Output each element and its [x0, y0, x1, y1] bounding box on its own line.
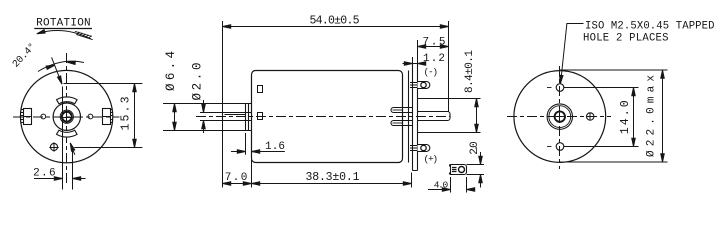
dimension 54.0 line [223, 26, 449, 28]
detail crimp bar [452, 168, 457, 172]
dimension 38.3 extension right [411, 173, 413, 188]
angular dimension arc 20.4deg [38, 61, 84, 71]
dimension dia 6.4 [174, 104, 176, 131]
svg-text:ROTATION: ROTATION [36, 18, 91, 30]
extension line top (15.3) [64, 83, 143, 85]
svg-text:1.2: 1.2 [423, 53, 445, 65]
dim 14.0 extension lines [564, 88, 639, 147]
rotation direction curved arrow [38, 31, 92, 39]
dimension 15.3 line [134, 84, 136, 148]
svg-text:7.0: 7.0 [225, 172, 248, 184]
dimension 54.0 extension right [448, 21, 450, 112]
right small hole [587, 113, 594, 120]
20.4deg text [10, 41, 39, 70]
right pivot hole [88, 114, 93, 119]
dim 14.0 line [633, 88, 635, 147]
horizontal centerline (right view) [507, 116, 611, 118]
bearing boss front [246, 104, 252, 131]
dimension 7.0 extension [251, 165, 253, 188]
shaft center cross [61, 111, 73, 123]
dimension 38.3 line [252, 183, 412, 185]
bottom reference arrow [72, 147, 75, 155]
negative terminal crimp stripes [410, 83, 418, 88]
dimension 38.3 text [306, 171, 360, 184]
right brush cap rectangle [103, 109, 111, 125]
rear bearing hole [555, 111, 565, 121]
dim 22.0 text [646, 75, 658, 157]
dimension 2.6 line right [73, 178, 86, 180]
main centerline [196, 116, 450, 118]
dimension 54.0 text [310, 15, 360, 28]
dimension 1.2 arrows [403, 63, 426, 65]
shaft inner line [225, 114, 247, 116]
detail dim 2.0 line [480, 152, 482, 188]
extension line B (2.6 right) [72, 151, 74, 190]
shaft outline [223, 113, 252, 121]
dimension 54.0 extension left [222, 21, 224, 113]
boss diameter extension lines (6.4) [163, 104, 246, 131]
right brush cap hatch ticks [111, 110, 113, 123]
dimension 2.6 text [33, 168, 56, 180]
svg-text:1.6: 1.6 [265, 141, 285, 153]
vertical centerline (left view) [66, 53, 68, 186]
dimension 2.6 line left [34, 178, 63, 180]
dimension 7.5 text [423, 36, 446, 48]
detail dim 4.0 extensions [451, 177, 467, 193]
dimension 8.4 text [464, 50, 476, 93]
screw hole symbol [50, 143, 57, 150]
vent square upper [258, 86, 263, 93]
svg-text:15.3: 15.3 [120, 96, 133, 130]
detail crimp wings [449, 165, 451, 175]
dim 14.0 text [619, 100, 632, 134]
rear hub inner ring [549, 106, 571, 128]
rear face outer circle [514, 71, 606, 163]
vertical centerline (right view) [559, 66, 561, 169]
svg-text:Ø22.0max: Ø22.0max [646, 75, 658, 157]
positive eyelet terminal [418, 144, 430, 151]
dimension 7.5 extension [417, 40, 419, 64]
motor body outline [252, 71, 403, 163]
dimension 7.0 line [223, 183, 252, 185]
horizontal centerline (left view) [13, 116, 120, 118]
svg-text:14.0: 14.0 [619, 100, 632, 134]
dimension 1.6 [246, 133, 252, 165]
detail dim 4.0 text [434, 180, 449, 191]
svg-text:HOLE 2 PLACES: HOLE 2 PLACES [583, 32, 669, 44]
svg-text:54.0±0.5: 54.0±0.5 [310, 15, 360, 28]
dimension dia 2.0 [203, 100, 205, 133]
dim 22.0 extension lines [560, 70, 668, 162]
bearing ring [60, 110, 73, 123]
dim 22.0 line [662, 70, 664, 162]
dimension 1.2 text [423, 53, 445, 65]
left brush cap rectangle [24, 109, 32, 125]
lower hook clip [391, 121, 413, 126]
svg-text:7.5: 7.5 [423, 36, 446, 48]
svg-text:Ø6.4: Ø6.4 [164, 51, 178, 91]
20.4 degree slanted reference line with arrow [52, 57, 61, 81]
svg-text:(-): (-) [424, 67, 439, 78]
terminal plate [413, 64, 418, 171]
note text line 2 [583, 32, 669, 44]
svg-text:20.4°: 20.4° [10, 41, 39, 70]
dimension 8.4 extension lines [418, 99, 481, 133]
dimension 15.3 text [120, 96, 133, 130]
bearing boss circle [53, 103, 80, 130]
dimension 1.2 extension [412, 57, 414, 64]
top boss tab [57, 97, 78, 104]
svg-text:4.0: 4.0 [434, 180, 449, 191]
upper hook clip [391, 108, 413, 113]
endcap inner line [408, 71, 410, 163]
bottom tapped hole [556, 143, 564, 151]
shaft diameter extension lines [200, 113, 223, 121]
rear center cross [556, 113, 564, 121]
dimension 7.5 line [418, 46, 449, 48]
rotation arrow hatched tail [75, 31, 93, 40]
svg-text:2.6: 2.6 [33, 168, 56, 180]
extension line bottom (15.3) [74, 147, 142, 149]
svg-text:8.4±0.1: 8.4±0.1 [464, 50, 476, 93]
tapped hole leader line [561, 24, 584, 84]
extension line A (2.6 left) [62, 87, 64, 190]
plus label [424, 154, 439, 165]
svg-text:(+): (+) [424, 154, 439, 165]
ROTATION label [36, 18, 91, 30]
top tapped hole [556, 84, 564, 92]
detail dim 2.0 extensions [467, 165, 485, 175]
detail dim 2.0 text [469, 141, 481, 155]
positive terminal crimp stripes [410, 146, 418, 151]
svg-text:ISO M2.5X0.45 TAPPED: ISO M2.5X0.45 TAPPED [585, 21, 715, 33]
dimension 7.0 text [225, 172, 248, 184]
negative eyelet terminal [418, 82, 430, 89]
minus label [424, 67, 439, 78]
rear shaft end bar [418, 112, 451, 121]
motor body outer circle (left view) [20, 70, 112, 162]
detail eyelet outline [451, 165, 467, 175]
left pivot hole [41, 114, 46, 119]
note text line 1 [585, 21, 715, 33]
svg-text:2.0: 2.0 [469, 141, 481, 155]
shaft circle [62, 112, 72, 122]
left brush cap hatch ticks [20, 110, 23, 123]
rear hub outer circle [547, 104, 572, 129]
bottom boss tab [57, 130, 78, 137]
detail dim 4.0 line [428, 189, 474, 191]
svg-text:Ø2.0: Ø2.0 [191, 63, 205, 101]
dimension 8.4 line [476, 99, 478, 133]
vent square lower [258, 113, 263, 120]
detail eyelet hole [459, 167, 465, 173]
svg-text:38.3±0.1: 38.3±0.1 [306, 171, 360, 184]
